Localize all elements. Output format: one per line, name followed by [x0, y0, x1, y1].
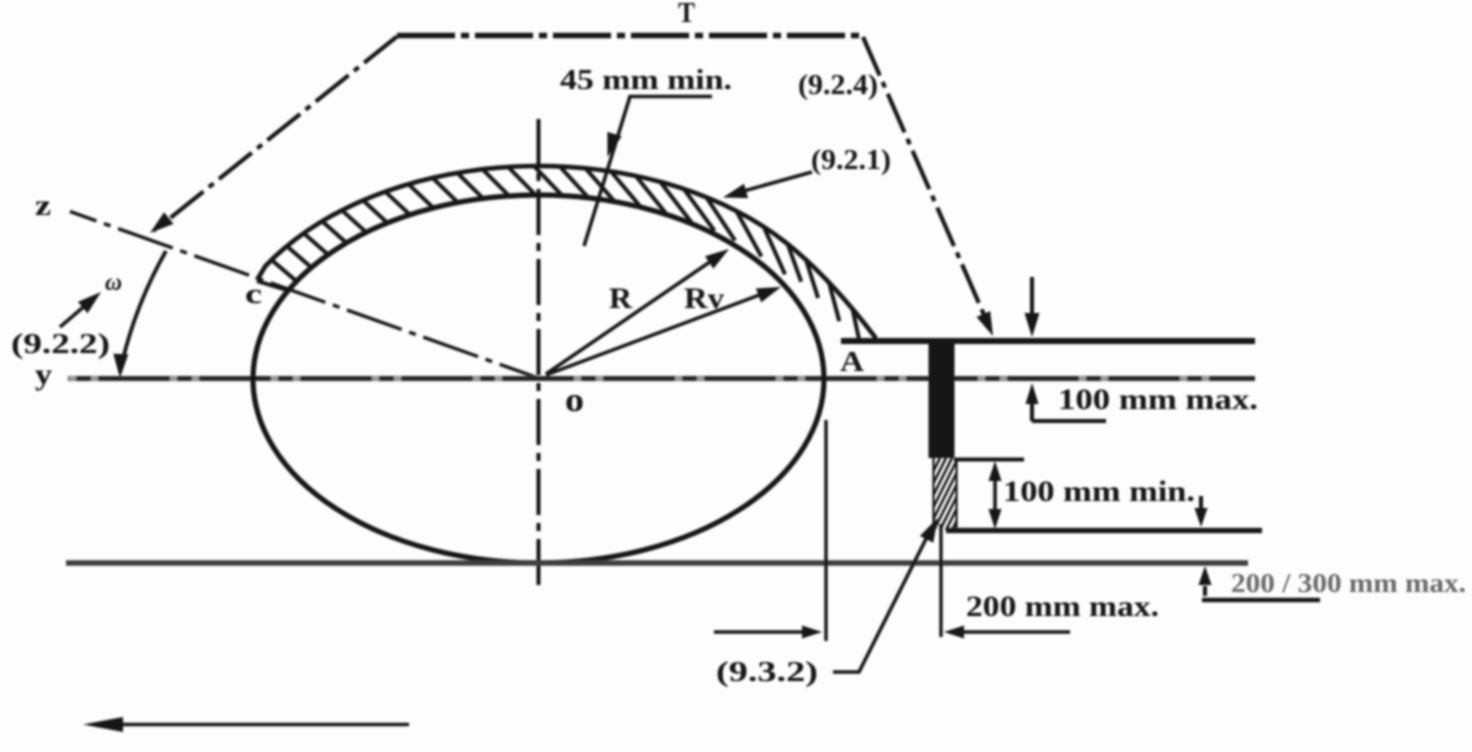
label z: [35, 189, 51, 222]
svg-text:c: c: [245, 279, 262, 310]
200 mm max dimension line left part with right arrow: [714, 630, 804, 633]
label 45 mm min.: [560, 64, 732, 96]
arrowhead of right T leader: [977, 311, 994, 336]
label Rv: [684, 282, 724, 315]
up arrow below ground line (200/300 dim): [1203, 586, 1207, 596]
label (9.2.4): [798, 69, 878, 101]
label 100 mm min.: [1003, 475, 1195, 508]
svg-text:ω: ω: [105, 270, 122, 296]
ellipse (clearance zone inner boundary): [253, 195, 824, 563]
leader arrow pointing to omega symbol: [60, 298, 94, 327]
y-axis gray underlay: [68, 376, 1255, 382]
extension line below ellipse right edge: [824, 420, 827, 641]
ground line: [66, 560, 1248, 566]
label omega: [105, 270, 122, 296]
svg-text:45 mm min.: 45 mm min.: [560, 64, 732, 96]
svg-text:(9.3.2): (9.3.2): [716, 656, 818, 688]
outer boundary arc of 45mm band: [257, 166, 875, 341]
wire left diagonal leader from T to z-axis: [154, 37, 397, 232]
svg-text:y: y: [35, 358, 52, 391]
label (9.2.1): [811, 144, 891, 176]
label c: [245, 279, 262, 310]
svg-text:(9.2.2): (9.2.2): [11, 328, 110, 360]
radius R arrow from centre o: [546, 255, 720, 374]
leader from 45 mm min. label crossing the band: [584, 97, 712, 247]
leader from (9.3.2) to hatched post: [833, 531, 930, 672]
label R: [609, 282, 632, 315]
label A: [840, 347, 865, 378]
svg-text:(9.2.4): (9.2.4): [798, 69, 878, 101]
vertical double arrow 100 mm min dimension: [993, 466, 997, 524]
svg-text:A: A: [840, 347, 865, 378]
solid black post below surface: [929, 340, 955, 458]
label 100 mm max.: [1058, 383, 1258, 416]
label o: [565, 382, 584, 419]
wire right diagonal leader from T to surface: [863, 37, 988, 324]
surface line right of point A: [841, 338, 1255, 344]
extension line below hatched post: [939, 524, 942, 637]
svg-text:R: R: [609, 282, 632, 315]
svg-text:T: T: [678, 0, 695, 29]
label T: [678, 0, 695, 29]
vertical centre dash-dot axis: [537, 119, 541, 592]
svg-text:100 mm min.: 100 mm min.: [1003, 475, 1195, 508]
label 200 mm max.: [966, 590, 1159, 623]
band left end cap at z-axis: [257, 281, 290, 291]
svg-text:200 / 300 mm max.: 200 / 300 mm max.: [1231, 568, 1466, 598]
arrowhead of angle arc pointing down at y-axis: [113, 354, 128, 378]
svg-text:(9.2.1): (9.2.1): [811, 144, 891, 176]
step line at bottom of black post: [954, 458, 1024, 462]
z-axis dash-dot line: [70, 212, 541, 380]
leader from (9.2.1) label to outer arc: [733, 172, 812, 194]
svg-text:z: z: [35, 189, 51, 222]
radius Rv arrow from centre o: [546, 291, 770, 375]
label (9.3.2): [716, 656, 818, 688]
hatch rungs of 45mm band: [273, 167, 861, 348]
svg-text:o: o: [565, 382, 584, 419]
hatched lower part of post: [892, 458, 1006, 530]
y-axis dash-dot line: [68, 376, 1255, 381]
200 mm max dimension line right part with left arrow: [962, 630, 1070, 633]
lower step line: [946, 528, 1262, 533]
svg-text:100 mm max.: 100 mm max.: [1058, 383, 1258, 416]
hatched post outline: [934, 458, 957, 530]
node T top boundary dash-dot line: [397, 33, 864, 39]
label (9.2.2): [11, 328, 110, 360]
svg-text:Rv: Rv: [684, 282, 724, 315]
angle arc between z-axis and y-axis: [120, 251, 166, 372]
label y: [35, 358, 52, 391]
short down arrow onto lower step line: [1199, 496, 1203, 512]
bottom-left scale arrow: [118, 723, 409, 727]
label 200 / 300 mm max.: [1231, 568, 1466, 598]
100 mm max dimension bracket with up arrow: [1032, 390, 1106, 421]
short vertical arrow onto surface line: [1030, 277, 1034, 322]
reference line under 200/300 label: [1202, 598, 1320, 602]
arrowhead on 45mm leader at outer arc: [607, 132, 621, 157]
arrowhead of left T leader: [150, 212, 174, 233]
svg-text:200 mm max.: 200 mm max.: [966, 590, 1159, 623]
